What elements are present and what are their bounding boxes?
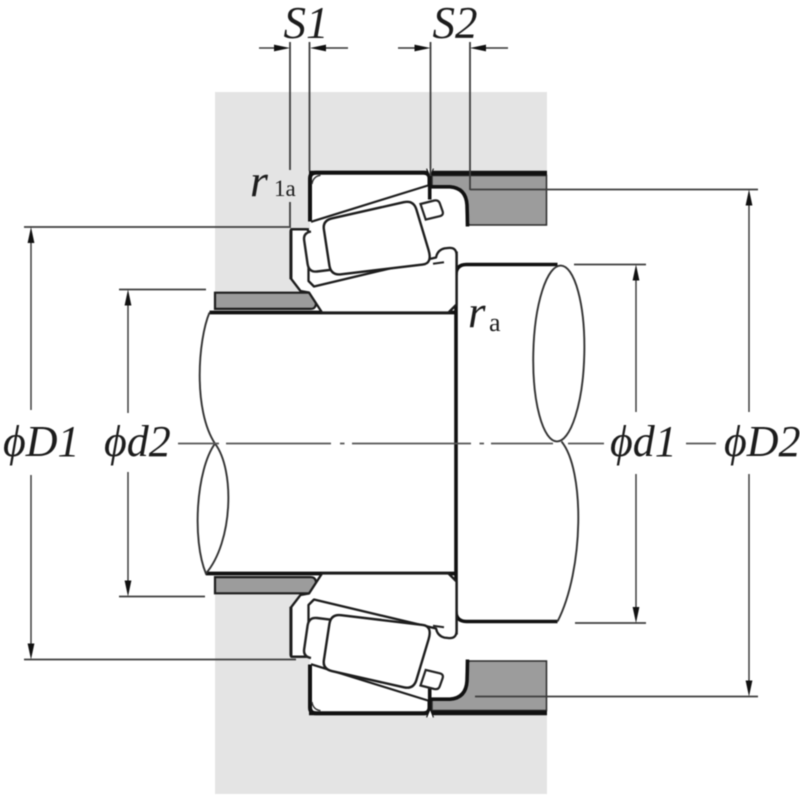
shaft large section bottom edge with fillet ra [456, 611, 558, 622]
housing bore line top [309, 171, 547, 176]
housing cover step lines bottom [291, 608, 309, 657]
dimension d1 [574, 265, 677, 624]
label r1a [250, 155, 296, 206]
housing shoulder bottom right [431, 660, 547, 711]
right break lens [531, 265, 586, 442]
sleeve top left [215, 293, 318, 309]
dimension D2 [470, 190, 800, 697]
svg-text:ϕD2: ϕD2 [724, 417, 800, 466]
svg-text:r: r [468, 287, 486, 337]
dimension D1 [3, 227, 296, 660]
left break upper arc [200, 313, 215, 444]
svg-text:ϕD1: ϕD1 [3, 417, 80, 466]
shaft [198, 252, 587, 635]
shaft upper surface [210, 311, 457, 315]
svg-text:ϕd1: ϕd1 [610, 417, 677, 466]
svg-text:S2: S2 [433, 0, 478, 48]
dimension S1 [259, 0, 348, 228]
bearing bottom roller and cage [304, 615, 444, 689]
shaft large section top edge with fillet ra [456, 265, 558, 276]
housing top (light gray) [215, 92, 547, 294]
housing shoulder top right [431, 176, 547, 227]
housing cover step lines top [291, 229, 309, 278]
cup-to-housing V notch bottom [427, 709, 434, 718]
svg-text:1a: 1a [274, 176, 296, 201]
sleeve bottom left [215, 577, 318, 593]
centerline [178, 443, 716, 445]
left break lens [198, 444, 229, 574]
bearing top rings [291, 173, 456, 313]
svg-text:a: a [489, 308, 501, 337]
bearing top roller and cage [304, 200, 444, 274]
label ra [468, 287, 501, 337]
svg-text:S1: S1 [284, 0, 329, 48]
svg-text:r: r [250, 155, 269, 206]
bearing bottom rings [291, 574, 456, 714]
svg-text:ϕd2: ϕd2 [104, 417, 171, 466]
shaft shoulder face [454, 252, 458, 635]
right break lower arc [558, 442, 579, 622]
dimension d2 [104, 290, 206, 597]
housing bottom (light gray) [215, 592, 547, 794]
dimension S2 [398, 0, 508, 190]
housing bore line bottom [309, 711, 547, 716]
cup-to-housing V notch top [427, 169, 434, 178]
shaft lower surface [206, 572, 456, 576]
